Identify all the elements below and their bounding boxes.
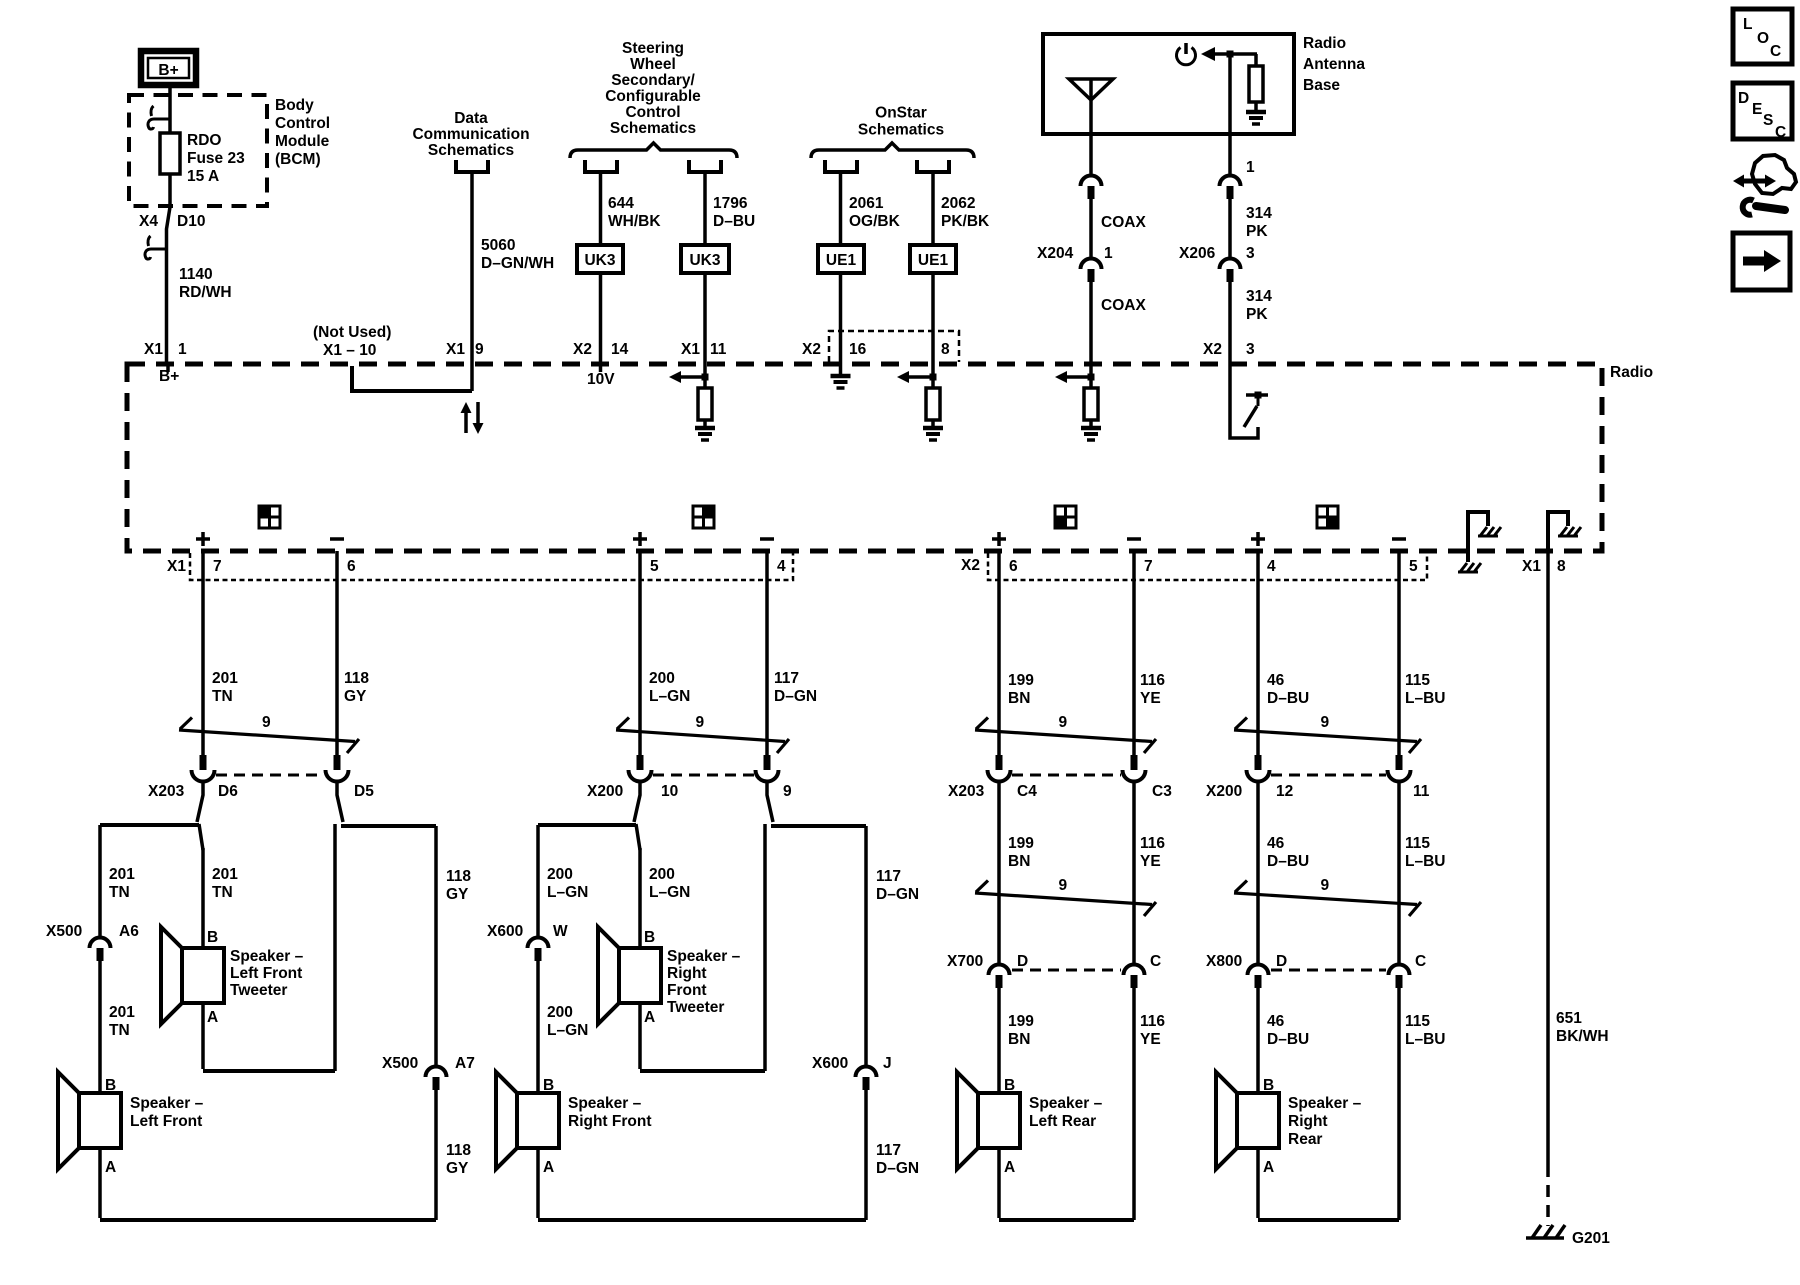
- svg-text:Radio: Radio: [1610, 364, 1653, 381]
- connector X204 pin 1 labels: [1037, 245, 1113, 262]
- connector strip X2 dotted box: [988, 553, 1427, 580]
- label wire 1140 RD/WH: [179, 266, 232, 301]
- label 118 GY upper: [344, 670, 369, 705]
- resistor antenna amp: [1249, 66, 1263, 102]
- wire Left Rear negative mid: [1132, 781, 1136, 964]
- wire UK3 to radio pin X2-14: [599, 273, 603, 364]
- wire 5060 D-GN/WH to radio pin X1-9: [470, 172, 474, 391]
- svg-text:UE1: UE1: [918, 252, 949, 269]
- wire Right Front negative jog to J: [767, 781, 773, 822]
- svg-text:4: 4: [777, 558, 786, 575]
- label 118 GY mid: [446, 868, 471, 903]
- svg-text:A7: A7: [455, 1055, 475, 1072]
- connector X203 pin D6: [192, 755, 215, 782]
- pin label X1 8: [1522, 558, 1566, 575]
- svg-text:10: 10: [661, 783, 678, 800]
- label 314 PK upper: [1246, 205, 1272, 240]
- svg-text:12: 12: [1276, 783, 1293, 800]
- wire Right Rear negative mid: [1397, 781, 1401, 964]
- wire speaker Right Front bottom loop: [538, 1148, 866, 1220]
- svg-text:GY: GY: [446, 886, 469, 903]
- speaker Left Rear terminals B A: [1004, 1077, 1015, 1176]
- svg-text:X1: X1: [681, 341, 700, 358]
- wire 201 TN Left Front positive from radio: [201, 551, 205, 755]
- svg-text:46: 46: [1267, 1013, 1285, 1030]
- power feed box B+: [141, 51, 196, 85]
- svg-text:D–GN: D–GN: [876, 1160, 919, 1177]
- speaker icon right rear: [1317, 506, 1338, 528]
- wire UE1 to radio pin 8: [931, 273, 935, 364]
- svg-text:X203: X203: [948, 783, 985, 800]
- Radio dashed box: [127, 364, 1602, 551]
- svg-text:Wheel: Wheel: [630, 56, 676, 73]
- tweeter Left Front terminals B A: [207, 929, 218, 1026]
- svg-text:UE1: UE1: [826, 252, 857, 269]
- label 117 D–GN mid: [876, 868, 919, 903]
- svg-text:OG/BK: OG/BK: [849, 213, 901, 230]
- svg-text:D–BU: D–BU: [1267, 853, 1309, 870]
- label 46 D–BU mid: [1267, 835, 1309, 870]
- pin label X1 11: [681, 341, 727, 358]
- svg-text:X600: X600: [487, 923, 523, 940]
- icon box DESC: [1733, 83, 1792, 141]
- wire 2062 PK/BK: [931, 172, 935, 245]
- wire Right Front to X600 J: [864, 826, 868, 1066]
- label 115 L–BU mid: [1405, 835, 1445, 870]
- BCM dashed box: [129, 95, 267, 206]
- connector X600 W labels: [487, 923, 568, 940]
- label 200 L–GN upper: [649, 670, 690, 705]
- wire 651 dashed tail: [1546, 1165, 1550, 1226]
- label 46 D–BU lower: [1267, 1013, 1309, 1048]
- wire COAX upper: [1089, 199, 1093, 258]
- label 1796 D-BU: [713, 195, 755, 230]
- label 200 L–GN branch lower: [547, 1004, 588, 1039]
- svg-text:Right: Right: [1288, 1113, 1328, 1130]
- svg-text:9: 9: [1059, 714, 1068, 731]
- svg-text:117: 117: [876, 868, 901, 885]
- connector X500 A6: [90, 938, 111, 962]
- svg-text:Control: Control: [625, 104, 680, 121]
- page bracket data communication: [456, 160, 488, 172]
- svg-text:5: 5: [650, 558, 659, 575]
- antenna power switch inside radio: [1230, 364, 1268, 438]
- svg-text:A: A: [105, 1159, 116, 1176]
- wire speaker Right Rear bottom loop: [1258, 1148, 1399, 1220]
- wire W to speaker B: [536, 961, 540, 1093]
- svg-text:D–GN/WH: D–GN/WH: [481, 255, 554, 272]
- pull-up resistor and ground at pin X1-11: [669, 364, 715, 440]
- connector X700 pin D: [989, 965, 1010, 988]
- label 2062 PK/BK: [941, 195, 990, 230]
- tweeter Left Front: [161, 927, 224, 1024]
- svg-text:115: 115: [1405, 672, 1430, 689]
- svg-text:6: 6: [347, 558, 356, 575]
- svg-text:C4: C4: [1017, 783, 1037, 800]
- wire 117 D–GN Right Front negative from radio: [765, 551, 769, 755]
- label 115 L–BU lower: [1405, 1013, 1445, 1048]
- svg-text:A6: A6: [119, 923, 139, 940]
- RPO code box UK3 right: [681, 245, 729, 273]
- wire Right Rear positive mid: [1256, 781, 1260, 964]
- svg-text:1: 1: [1104, 245, 1113, 262]
- svg-text:TN: TN: [212, 884, 233, 901]
- connector dashed pair line X700: [1012, 969, 1121, 972]
- svg-text:5060: 5060: [481, 237, 515, 254]
- svg-text:14: 14: [611, 341, 629, 358]
- svg-text:Speaker –: Speaker –: [230, 948, 304, 965]
- connector X700 pin C: [1124, 965, 1145, 988]
- svg-text:A: A: [644, 1009, 655, 1026]
- wire Left Rear positive mid: [997, 781, 1001, 964]
- label Speaker Right Rear: [1288, 1095, 1362, 1148]
- svg-text:B: B: [1263, 1077, 1274, 1094]
- svg-text:Control: Control: [275, 115, 330, 132]
- wire 644 WH/BK: [599, 172, 603, 245]
- label 118 GY lower: [446, 1142, 471, 1177]
- svg-text:D10: D10: [177, 213, 205, 230]
- tweeter Right Front terminals B A: [644, 929, 655, 1026]
- svg-text:PK: PK: [1246, 306, 1268, 323]
- svg-text:Front: Front: [667, 982, 707, 999]
- svg-text:X4: X4: [139, 213, 158, 230]
- svg-text:TN: TN: [109, 884, 130, 901]
- svg-text:1: 1: [1246, 159, 1255, 176]
- wire 2061 OG/BK: [839, 172, 843, 245]
- wire 115 L–BU Right Rear negative from radio: [1397, 551, 1401, 755]
- connector X200 labels: [587, 783, 792, 800]
- svg-text:10V: 10V: [587, 371, 615, 388]
- brace steering wheel section: [570, 143, 737, 158]
- svg-text:6: 6: [1009, 558, 1018, 575]
- svg-text:Base: Base: [1303, 77, 1340, 94]
- connector dashed pair line X800: [1271, 969, 1386, 972]
- svg-text:BN: BN: [1008, 690, 1030, 707]
- svg-text:D: D: [1738, 90, 1749, 107]
- svg-text:5: 5: [1409, 558, 1418, 575]
- connector X4 pin D10 labels: [139, 213, 205, 230]
- connector X600 J: [856, 1067, 877, 1091]
- connector dashed pair line X203: [216, 774, 324, 777]
- connector clip lower: [145, 236, 167, 259]
- svg-text:11: 11: [710, 341, 727, 358]
- svg-text:201: 201: [109, 1004, 135, 1021]
- svg-text:X1: X1: [446, 341, 465, 358]
- svg-text:D: D: [1017, 953, 1028, 970]
- svg-text:Speaker –: Speaker –: [568, 1095, 642, 1112]
- connector dashed pair line X200: [1271, 774, 1386, 777]
- svg-text:W: W: [553, 923, 568, 940]
- wire UE1 to radio pin X2-16: [839, 273, 843, 364]
- svg-text:201: 201: [109, 866, 135, 883]
- connector X600 J labels: [812, 1055, 892, 1072]
- svg-text:X1: X1: [144, 341, 163, 358]
- label Speaker Left Front: [130, 1095, 204, 1130]
- svg-text:3: 3: [1246, 245, 1255, 262]
- wire to antenna amp resistor: [1254, 54, 1258, 66]
- power symbol: [1177, 43, 1196, 65]
- svg-text:D6: D6: [218, 783, 238, 800]
- svg-text:314: 314: [1246, 288, 1272, 305]
- wire UK3 to radio pin X1-11: [703, 273, 707, 364]
- svg-text:L–BU: L–BU: [1405, 690, 1445, 707]
- svg-text:L–BU: L–BU: [1405, 853, 1445, 870]
- OnStar pins dotted box: [829, 331, 959, 362]
- svg-text:X206: X206: [1179, 245, 1216, 262]
- svg-text:118: 118: [446, 868, 471, 885]
- connector X200 pin 9: [756, 755, 779, 782]
- svg-text:GY: GY: [446, 1160, 469, 1177]
- svg-text:15 A: 15 A: [187, 168, 219, 185]
- svg-text:(BCM): (BCM): [275, 151, 321, 168]
- connector 314 PK upper: [1220, 176, 1241, 199]
- svg-text:Left Front: Left Front: [230, 965, 302, 982]
- svg-text:YE: YE: [1140, 853, 1161, 870]
- label Body Control Module (BCM): [275, 97, 330, 168]
- svg-text:D–GN: D–GN: [876, 886, 919, 903]
- svg-text:D–BU: D–BU: [713, 213, 755, 230]
- wire 118 GY Left Front negative from radio: [335, 551, 339, 755]
- svg-text:Body: Body: [275, 97, 314, 114]
- label 199 BN lower: [1008, 1013, 1034, 1048]
- connector X203 pin D5: [326, 755, 349, 782]
- wire Left Front positive jog and branch: [197, 781, 203, 822]
- svg-text:X203: X203: [148, 783, 185, 800]
- svg-text:9: 9: [475, 341, 484, 358]
- wire 46 D–BU Right Rear positive from radio: [1256, 551, 1260, 755]
- label (Not Used) X1-10: [313, 324, 391, 359]
- svg-text:A: A: [207, 1009, 218, 1026]
- wire 1796 D-BU: [703, 172, 707, 245]
- svg-text:16: 16: [849, 341, 867, 358]
- wire Left Front positive to tweeter: [201, 848, 205, 948]
- RPO code box UE1 left: [818, 245, 864, 273]
- svg-text:B: B: [105, 1077, 116, 1094]
- svg-text:B+: B+: [158, 62, 178, 79]
- svg-text:Schematics: Schematics: [610, 120, 696, 137]
- svg-text:2061: 2061: [849, 195, 884, 212]
- connector X700 labels: [947, 953, 1161, 970]
- svg-text:Right Front: Right Front: [568, 1113, 652, 1130]
- svg-text:199: 199: [1008, 1013, 1034, 1030]
- fuse RDO Fuse 23 15 A: [160, 133, 180, 174]
- ground antenna amp: [1246, 102, 1266, 124]
- page bracket OnStar 1: [825, 160, 857, 172]
- svg-text:117: 117: [876, 1142, 901, 1159]
- svg-text:Secondary/: Secondary/: [611, 72, 695, 89]
- svg-text:117: 117: [774, 670, 799, 687]
- wire 314 PK upper: [1228, 199, 1232, 258]
- svg-text:7: 7: [1144, 558, 1153, 575]
- arrow feed to power symbol: [1201, 47, 1257, 61]
- label RDO Fuse 23 15 A: [187, 132, 245, 185]
- svg-text:L–GN: L–GN: [649, 884, 690, 901]
- svg-text:D–BU: D–BU: [1267, 1031, 1309, 1048]
- svg-text:RDO: RDO: [187, 132, 221, 149]
- svg-text:9: 9: [1321, 877, 1330, 894]
- icon box LOC: [1733, 9, 1792, 64]
- wire Left Rear positive to speaker B: [997, 988, 1001, 1093]
- connector X200 pin 11: [1388, 755, 1411, 782]
- speaker Right Front: [496, 1072, 559, 1169]
- connector strip X1 dotted box: [190, 553, 793, 580]
- svg-text:Tweeter: Tweeter: [667, 999, 724, 1016]
- wire antenna power lead inside base: [1228, 54, 1232, 175]
- svg-text:E: E: [1752, 101, 1762, 118]
- antenna mast wire: [1089, 79, 1093, 175]
- svg-text:651: 651: [1556, 1010, 1582, 1027]
- svg-text:L–GN: L–GN: [547, 884, 588, 901]
- connector X206 antenna power: [1220, 259, 1241, 283]
- ground at pin X2-16 inside radio: [831, 364, 851, 388]
- wire speaker Left Front bottom loop: [100, 1148, 436, 1220]
- label 117 D–GN upper: [774, 670, 817, 705]
- svg-text:B+: B+: [159, 368, 179, 385]
- svg-text:X500: X500: [46, 923, 82, 940]
- svg-text:Speaker –: Speaker –: [1029, 1095, 1103, 1112]
- svg-text:201: 201: [212, 866, 238, 883]
- svg-text:X200: X200: [587, 783, 623, 800]
- icon arrows and wrench: [1733, 155, 1796, 215]
- svg-text:G201: G201: [1572, 1230, 1610, 1247]
- svg-text:Antenna: Antenna: [1303, 56, 1365, 73]
- svg-text:Communication: Communication: [412, 126, 529, 143]
- svg-text:COAX: COAX: [1101, 297, 1146, 314]
- svg-text:115: 115: [1405, 835, 1430, 852]
- label 5060 D-GN/WH: [481, 237, 554, 272]
- heading Data Communication Schematics: [412, 110, 529, 159]
- connector X800 pin C: [1389, 965, 1410, 988]
- svg-text:X500: X500: [382, 1055, 418, 1072]
- svg-text:9: 9: [1321, 714, 1330, 731]
- twisted pair Left Rear lower: [975, 881, 1156, 917]
- page bracket OnStar 2: [917, 160, 949, 172]
- svg-text:X1: X1: [1522, 558, 1541, 575]
- label 200 L–GN branch upper: [547, 866, 588, 901]
- svg-text:118: 118: [446, 1142, 471, 1159]
- svg-text:1140: 1140: [179, 266, 213, 283]
- svg-text:200: 200: [547, 866, 573, 883]
- svg-text:D: D: [1276, 953, 1287, 970]
- svg-text:(Not Used): (Not Used): [313, 324, 391, 341]
- svg-text:8: 8: [1557, 558, 1566, 575]
- svg-text:1796: 1796: [713, 195, 748, 212]
- speaker icon left front: [259, 506, 280, 528]
- wire Right Rear positive to speaker B: [1256, 988, 1260, 1093]
- svg-text:BK/WH: BK/WH: [1556, 1028, 1609, 1045]
- svg-text:46: 46: [1267, 835, 1285, 852]
- svg-text:644: 644: [608, 195, 634, 212]
- connector coax upper at antenna: [1081, 176, 1102, 199]
- svg-text:2062: 2062: [941, 195, 975, 212]
- svg-text:118: 118: [344, 670, 369, 687]
- connector X500 A7 labels: [382, 1055, 475, 1072]
- label 199 BN upper: [1008, 672, 1034, 707]
- connector X500 A6 labels: [46, 923, 139, 940]
- speaker icon left rear: [1055, 506, 1076, 528]
- speaker Right Front terminals B A: [543, 1077, 554, 1176]
- wire 314 PK lower to radio pin X2-3: [1228, 282, 1232, 364]
- svg-text:YE: YE: [1140, 1031, 1161, 1048]
- svg-text:B: B: [543, 1077, 554, 1094]
- svg-text:201: 201: [212, 670, 238, 687]
- pin label X2 3: [1203, 341, 1255, 358]
- wire COAX lower to radio: [1089, 282, 1093, 364]
- svg-text:Data: Data: [454, 110, 488, 127]
- svg-text:UK3: UK3: [584, 252, 615, 269]
- svg-text:X600: X600: [812, 1055, 848, 1072]
- svg-text:116: 116: [1140, 1013, 1165, 1030]
- connector X200 pin 10: [629, 755, 652, 782]
- heading Steering Wheel Secondary/Configurable Control Schematics: [605, 40, 701, 137]
- svg-text:Speaker –: Speaker –: [130, 1095, 204, 1112]
- icon box forward arrow: [1733, 233, 1790, 290]
- wire from B+ through BCM fuse to radio pin X1-1: [167, 85, 171, 364]
- svg-text:BN: BN: [1008, 853, 1030, 870]
- svg-text:9: 9: [1059, 877, 1068, 894]
- connector dashed pair line X203: [1012, 774, 1121, 777]
- brace OnStar section: [811, 143, 974, 158]
- connector X204 coax: [1081, 259, 1102, 283]
- svg-text:X700: X700: [947, 953, 983, 970]
- connector X206 pin 3 labels: [1179, 245, 1255, 262]
- svg-text:Radio: Radio: [1303, 35, 1346, 52]
- radio chassis ground link 2 pin X1-8: [1548, 512, 1581, 551]
- svg-text:X2: X2: [802, 341, 821, 358]
- svg-text:D5: D5: [354, 783, 374, 800]
- label 200 L–GN tweeter branch: [649, 866, 690, 901]
- connector X800 labels: [1206, 953, 1426, 970]
- svg-text:X1: X1: [167, 558, 186, 575]
- label 644 WH/BK: [608, 195, 661, 230]
- svg-text:L: L: [1743, 16, 1752, 33]
- wire 651 BK/WH: [1546, 551, 1550, 1165]
- svg-text:Rear: Rear: [1288, 1131, 1322, 1148]
- svg-text:Tweeter: Tweeter: [230, 982, 287, 999]
- connector clip upper: [148, 106, 170, 129]
- label 651 BK/WH: [1556, 1010, 1609, 1045]
- svg-text:B: B: [644, 929, 655, 946]
- wire tweeter A loop Left Front: [201, 1003, 205, 1069]
- svg-text:Module: Module: [275, 133, 330, 150]
- svg-text:7: 7: [213, 558, 222, 575]
- svg-text:9: 9: [783, 783, 792, 800]
- svg-text:Steering: Steering: [622, 40, 684, 57]
- svg-text:116: 116: [1140, 835, 1165, 852]
- label Radio Antenna Base: [1303, 35, 1365, 94]
- RPO code box UK3 left: [577, 245, 623, 273]
- label 46 D–BU upper: [1267, 672, 1309, 707]
- wire Left Front to X500 A7: [434, 826, 438, 1066]
- svg-text:TN: TN: [212, 688, 233, 705]
- svg-text:J: J: [883, 1055, 892, 1072]
- wire Left Front branch to X500 A6: [98, 825, 102, 937]
- speaker Left Rear: [957, 1072, 1020, 1169]
- wire Left Rear negative to speaker A loop: [1132, 988, 1136, 1220]
- svg-text:X2: X2: [1203, 341, 1222, 358]
- pin stub X2-14 inside radio: [599, 364, 603, 372]
- connector X500 A7: [426, 1067, 447, 1091]
- wire Left Front negative jog to A7: [337, 781, 343, 822]
- svg-text:4: 4: [1267, 558, 1276, 575]
- label Speaker Right Front Tweeter: [667, 948, 741, 1016]
- svg-text:L–GN: L–GN: [649, 688, 690, 705]
- speaker Left Front: [58, 1072, 121, 1169]
- label 314 PK lower: [1246, 288, 1272, 323]
- pin stub X1-1 inside radio: [166, 364, 170, 372]
- page bracket steering 2: [689, 160, 721, 172]
- svg-text:200: 200: [649, 866, 675, 883]
